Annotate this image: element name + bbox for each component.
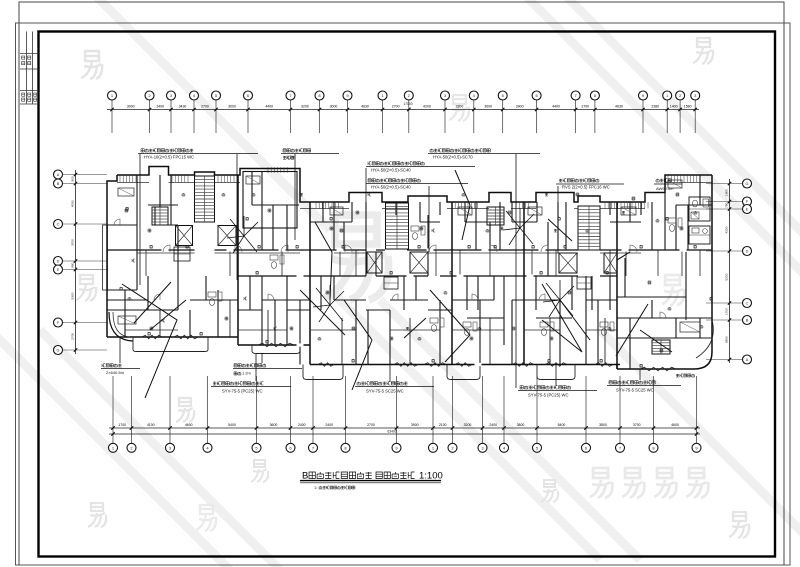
annotation bottom tv box (234, 364, 237, 367)
svg-text:4630: 4630 (361, 105, 369, 109)
svg-text:1700: 1700 (725, 308, 729, 315)
svg-text:2700: 2700 (392, 105, 400, 109)
top axis ticks (110, 108, 113, 111)
corridor horizontal wall y250 (107, 249, 195, 251)
plan right outer wall (711, 175, 713, 352)
left title strip columns (26, 32, 28, 105)
room block 240-300 (243, 172, 297, 229)
svg-text:2400: 2400 (298, 423, 306, 427)
stair small unit1 (152, 207, 168, 225)
svg-text:B: B (57, 182, 60, 186)
svg-text:3000: 3000 (330, 105, 338, 109)
plan left outer wall (107, 175, 117, 337)
svg-text:750: 750 (725, 202, 729, 207)
svg-text:SYV-75-5 (PC25) WC: SYV-75-5 (PC25) WC (528, 393, 569, 398)
right axis circles (743, 179, 752, 188)
svg-text:4050: 4050 (71, 200, 75, 207)
svg-text:1700: 1700 (118, 423, 126, 427)
annotation top 4 (368, 162, 371, 165)
svg-text:2×640.5m: 2×640.5m (106, 370, 125, 375)
top axis circles (108, 91, 117, 100)
svg-text:5400: 5400 (558, 423, 566, 427)
svg-text:2700: 2700 (367, 423, 375, 427)
svg-text:2100: 2100 (439, 423, 447, 427)
svg-text:SYV-75-5 SC25 WC: SYV-75-5 SC25 WC (366, 389, 404, 394)
top dimension line (107, 109, 699, 111)
svg-text:RVS 2(2×0.5) FPC16 WC: RVS 2(2×0.5) FPC16 WC (562, 184, 610, 189)
right vertical dimension line (729, 179, 731, 363)
left axis extension lines (63, 174, 108, 176)
bathroom fixtures (411, 226, 419, 231)
bottom-left rounded bay (109, 312, 133, 341)
stair right wing (652, 340, 670, 354)
svg-text:HYA-50(2×0.5)-SC40: HYA-50(2×0.5)-SC40 (371, 184, 411, 189)
svg-text:3200: 3200 (456, 105, 464, 109)
stair core 1 (195, 176, 215, 222)
upper band partition walls (136, 175, 138, 250)
svg-text:4400: 4400 (265, 105, 273, 109)
left axis circles (54, 170, 63, 179)
bottom axis ticks (111, 426, 114, 429)
window zigzags bottom (142, 335, 162, 339)
annotation top 1 (141, 149, 144, 152)
annotation top 2 (283, 149, 286, 152)
right end bathroom cluster (689, 197, 710, 221)
svg-text:3700: 3700 (633, 423, 641, 427)
right wing big room slope (617, 252, 630, 260)
svg-text:3000: 3000 (484, 105, 492, 109)
right axis extension lines (706, 183, 743, 185)
wiring leaders vertical (139, 154, 141, 285)
stair core 2 (386, 203, 409, 249)
balcony mid 1 (303, 365, 343, 380)
bottom step 1 (237, 337, 239, 345)
wire run unit4 (542, 284, 582, 352)
svg-text:3900: 3900 (516, 105, 524, 109)
balcony mid 2 (447, 365, 480, 380)
room labels (125, 209, 128, 212)
window sill hatches (119, 175, 121, 182)
svg-text:4630: 4630 (615, 105, 623, 109)
bottom step 2 (309, 345, 311, 365)
svg-text:4600: 4600 (185, 423, 193, 427)
svg-text:3000: 3000 (127, 105, 135, 109)
svg-text:HYA-50(2×0.5)-SC70: HYA-50(2×0.5)-SC70 (433, 154, 473, 159)
balcony left section (133, 337, 208, 352)
balcony mid 3 (537, 365, 575, 380)
svg-text:5200: 5200 (725, 273, 729, 280)
svg-text:G: G (57, 349, 60, 353)
left title strip rows (20, 53, 39, 55)
svg-text:4200: 4200 (725, 226, 729, 233)
plan bottom wall section 2 (238, 344, 310, 346)
svg-text:3900: 3900 (411, 423, 419, 427)
svg-text:3000: 3000 (228, 105, 236, 109)
bottom dimension line (109, 427, 700, 429)
elevator 3b (604, 253, 617, 273)
svg-text:3200: 3200 (301, 105, 309, 109)
socket marks (150, 246, 152, 248)
annotation top 5 (368, 179, 371, 182)
svg-text:1.2m: 1.2m (242, 371, 252, 376)
svg-text:SYV-75-5 (PC25) WC: SYV-75-5 (PC25) WC (222, 389, 263, 394)
svg-text:2700: 2700 (201, 105, 209, 109)
title underline (300, 480, 441, 482)
svg-text:C: C (57, 223, 60, 227)
elevator 1b (218, 226, 236, 246)
annotation top 3 (430, 149, 433, 152)
top wall inner parallel line (117, 182, 149, 184)
corridor horizontal wall y276 (238, 275, 366, 277)
svg-text:2400: 2400 (489, 423, 497, 427)
svg-text:5400: 5400 (228, 423, 236, 427)
svg-text:2700: 2700 (581, 105, 589, 109)
svg-text:5300: 5300 (71, 292, 75, 299)
lower band partition walls (124, 290, 126, 337)
lower band extra verticals (159, 310, 161, 337)
star burst wiring nodes (230, 219, 244, 236)
svg-text:C: C (746, 302, 749, 306)
svg-text:1800: 1800 (725, 189, 729, 196)
svg-text:63400: 63400 (387, 430, 396, 434)
annotation bottom A (213, 382, 216, 385)
top axis stems (111, 100, 113, 133)
svg-text:4100: 4100 (147, 423, 155, 427)
svg-text:850: 850 (71, 262, 75, 267)
wire run unit3 (455, 170, 470, 240)
wire run unit1 (122, 284, 177, 398)
svg-text:2400: 2400 (325, 423, 333, 427)
svg-text:3800: 3800 (517, 423, 525, 427)
svg-text:HYA-50(2×0.5)-SC40: HYA-50(2×0.5)-SC40 (371, 167, 411, 172)
watermark logo text (590, 468, 612, 498)
plan bottom wall mid section (310, 364, 620, 366)
svg-text:4400: 4400 (552, 105, 560, 109)
corridor horizontal wall y253 parallel (137, 252, 195, 254)
svg-text:1580: 1580 (684, 105, 692, 109)
svg-text:E: E (57, 268, 60, 272)
svg-text:G: G (746, 182, 749, 186)
left bay window (103, 225, 108, 290)
bottom axis circles (109, 443, 118, 452)
svg-text:2380: 2380 (651, 105, 659, 109)
wire run unit5 (616, 304, 648, 356)
door gaps (162, 248, 169, 251)
svg-text:D: D (57, 260, 60, 264)
svg-text:17000: 17000 (403, 102, 412, 106)
bottom step 3 (616, 365, 618, 370)
plan bottom wall left section (107, 336, 238, 338)
annotation top 7 (656, 179, 659, 182)
bottom overall dimension line (109, 433, 700, 435)
right wing rounded corner (617, 352, 712, 369)
svg-text:3950: 3950 (725, 336, 729, 343)
stair core 3 (578, 206, 600, 250)
svg-text:HYA-10(2×0.5) FPC15 WC: HYA-10(2×0.5) FPC15 WC (144, 154, 194, 159)
svg-text:AW90.5m: AW90.5m (656, 186, 674, 191)
bottom axis stems (112, 376, 114, 443)
room divider horizontals (148, 204, 178, 206)
meter boxes under cores (174, 247, 190, 261)
svg-text:4600: 4600 (671, 423, 679, 427)
main cross walls (237, 175, 239, 337)
svg-text:2700: 2700 (71, 333, 75, 340)
annotation top 6 (559, 179, 562, 182)
svg-text:E: E (746, 208, 749, 212)
annotation bottom left (102, 364, 105, 367)
wire run unit2 (315, 222, 332, 300)
balcony unit2 (252, 345, 300, 354)
right end bay arc (696, 320, 713, 358)
annotation bottom right small (676, 374, 679, 377)
annotation bottom D (609, 381, 612, 384)
svg-text:900: 900 (71, 176, 75, 181)
svg-text:1:: 1: (314, 485, 317, 490)
svg-text:B: B (746, 319, 749, 323)
svg-text:A: A (746, 358, 749, 362)
lower band inner horizontals y330 (125, 329, 178, 331)
svg-text:4200: 4200 (423, 105, 431, 109)
elevator 3a (559, 253, 577, 273)
annotation bottom C (520, 386, 523, 389)
watermark characters (81, 51, 102, 79)
corridor cell ticks (145, 250, 147, 276)
watermark diagonal streaks (520, 0, 800, 280)
svg-text:A: A (57, 173, 60, 177)
svg-text:3430: 3430 (179, 105, 187, 109)
svg-text:3700: 3700 (71, 239, 75, 246)
kitchen counters (118, 188, 134, 196)
plan top outer wall (117, 167, 712, 203)
svg-text:D: D (746, 250, 749, 254)
svg-text:1:100: 1:100 (419, 471, 443, 482)
left vertical dimension line (75, 170, 77, 354)
svg-text:2400: 2400 (156, 105, 164, 109)
stair small right (487, 207, 504, 225)
elevator 1a (176, 226, 193, 246)
svg-text:SYV-75-5 SC25 WC: SYV-75-5 SC25 WC (616, 388, 654, 393)
door swing arcs (163, 245, 170, 252)
elevator 2b (410, 252, 428, 273)
svg-text:3600: 3600 (270, 423, 278, 427)
svg-text:1400: 1400 (670, 105, 678, 109)
elevator 2a (367, 252, 382, 273)
annotation bottom B (357, 382, 360, 385)
svg-text:3800: 3800 (599, 423, 607, 427)
svg-text:B: B (302, 471, 308, 482)
svg-text:3200: 3200 (464, 423, 472, 427)
